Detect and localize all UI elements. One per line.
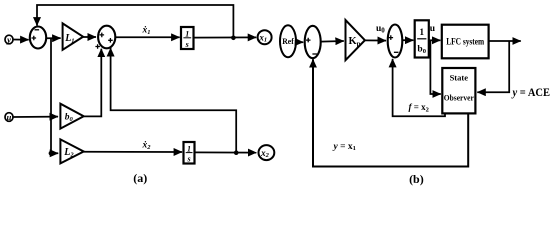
gain Kp: [346, 20, 365, 60]
wire: error branch down to gain L2: [51, 38, 58, 153]
summing junction S3: [305, 26, 321, 58]
node: input u: [5, 113, 13, 122]
svg-text:s: s: [185, 40, 189, 49]
svg-text:1: 1: [419, 28, 424, 38]
svg-text:y = x1: y = x1: [333, 142, 356, 152]
wire: L2 output to integrator 2: [84, 151, 182, 153]
gain L1: [63, 23, 84, 49]
wire: y=x1 feedback from observer to S3: [313, 59, 468, 166]
svg-text:ẋ1: ẋ1: [142, 26, 151, 37]
wire: S3 to gain Kp: [321, 40, 344, 43]
svg-text:LFC system: LFC system: [446, 38, 484, 48]
wire: integrator 2 to x2: [195, 151, 257, 153]
node: input y: [5, 35, 13, 44]
node: junction dot at L2 branch corner: [49, 151, 54, 156]
integrator 1/s block (row 1): [181, 27, 194, 49]
gain b0: [60, 104, 83, 129]
node: output x2: [259, 145, 275, 160]
wire: S4 to 1/b0 block: [402, 39, 413, 41]
summing junction S4: [388, 25, 403, 58]
wire: 1/b0 to LFC system, label u: [429, 39, 441, 41]
wire: Kp to sum S4, label u0: [365, 39, 386, 41]
integrator 1/s block (row 2): [184, 142, 195, 164]
wire: Ref to sum S3: [296, 41, 303, 43]
svg-text:Observer: Observer: [444, 93, 474, 103]
wire: y to sum S1: [13, 39, 28, 41]
svg-text:y: y: [6, 35, 11, 45]
svg-text:(a): (a): [133, 171, 147, 185]
gain L2: [60, 139, 83, 163]
node: junction dot on x1 line: [231, 36, 236, 41]
svg-text:State: State: [450, 72, 469, 82]
svg-text:y = ACE: y = ACE: [511, 87, 550, 99]
wire: L1 to sum S2: [83, 36, 96, 38]
node: input Ref: [280, 25, 296, 57]
wire: LFC output: [489, 40, 521, 42]
wire: S2 output to integrator 1: [115, 36, 179, 38]
wire: S1 output to gain L1: [46, 37, 60, 39]
svg-text:(b): (b): [409, 172, 424, 186]
wire: f=x2 feedback from observer up into S4: [393, 59, 445, 116]
node: output x1: [258, 30, 272, 44]
summing junction S1: [30, 27, 46, 49]
wire: b0 output up into sum S2: [84, 49, 102, 117]
svg-text:1: 1: [187, 144, 191, 153]
svg-text:ẋ2: ẋ2: [142, 141, 152, 152]
svg-text:s: s: [186, 155, 190, 164]
wire: x1 feedback to sum S1 (top line): [37, 5, 233, 38]
svg-text:u: u: [7, 112, 12, 122]
wire: integrator 1 to x1: [194, 36, 257, 38]
node: junction dot on x2 line: [234, 150, 239, 155]
wire: u branch down into State Observer: [430, 40, 440, 94]
summing junction S2: [98, 26, 115, 49]
block State Observer: [442, 68, 475, 113]
svg-text:u: u: [430, 24, 436, 34]
wire: x2 feedback up into sum S2: [111, 48, 237, 153]
wire: y=ACE feedback into State Observer: [477, 41, 509, 92]
svg-text:f = x2: f = x2: [409, 102, 429, 113]
block LFC system: [442, 25, 489, 59]
block 1/b0: [415, 20, 429, 57]
svg-text:Ref: Ref: [282, 37, 294, 46]
svg-text:u0: u0: [376, 24, 385, 35]
wire: u to gain b0: [13, 116, 58, 118]
